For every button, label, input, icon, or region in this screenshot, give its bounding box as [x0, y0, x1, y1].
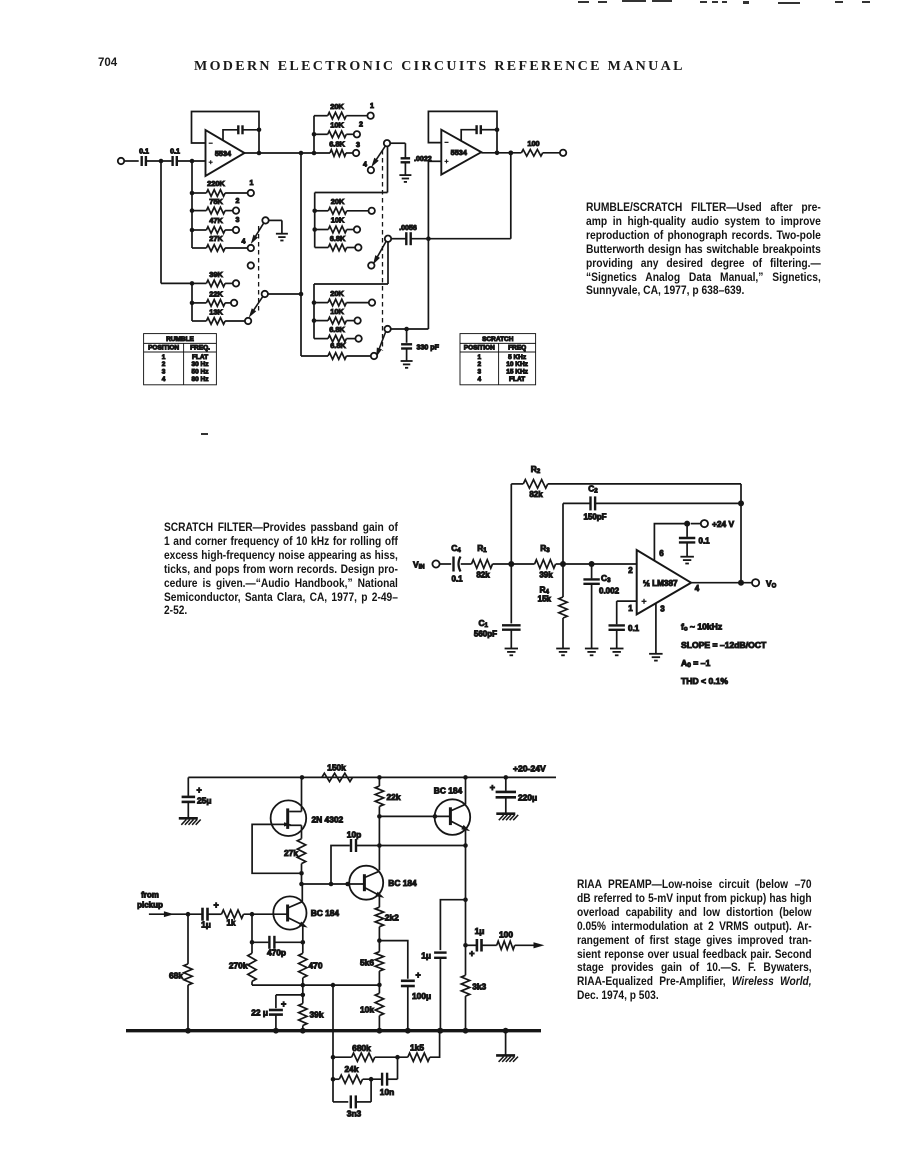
svg-text:10k: 10k	[360, 1005, 374, 1015]
svg-text:6: 6	[659, 549, 664, 558]
resistor 6.8K position3 top	[329, 139, 360, 156]
svg-text:680k: 680k	[352, 1043, 371, 1053]
svg-text:13K: 13K	[209, 307, 223, 316]
svg-text:4: 4	[162, 376, 166, 383]
switch S1a rumble	[248, 217, 268, 245]
resistor 220K position1	[192, 179, 254, 196]
node VIN terminal	[413, 559, 451, 570]
svg-text:6.8K: 6.8K	[330, 234, 346, 243]
text block SCRATCH FILTER caption	[164, 521, 398, 618]
resistor 150k	[322, 762, 353, 781]
svg-text:560pF: 560pF	[474, 630, 497, 639]
svg-text:5 KHz: 5 KHz	[508, 354, 527, 361]
page number	[98, 57, 117, 69]
resistor 13K	[192, 307, 251, 324]
svg-text:SLOPE = –12dB/OCT: SLOPE = –12dB/OCT	[681, 640, 767, 650]
ground for S1a	[276, 234, 288, 241]
running head title	[194, 59, 694, 75]
svg-text:20K: 20K	[331, 197, 345, 206]
svg-text:47K: 47K	[209, 216, 223, 225]
capacitor 22u	[251, 993, 305, 1031]
resistor 270k	[229, 953, 256, 985]
capacitor C1 560pF	[474, 564, 521, 649]
dashed link rumble switch	[258, 226, 260, 312]
svg-text:10K: 10K	[331, 216, 345, 225]
svg-text:1: 1	[370, 102, 374, 110]
transistor Q1 2N4302	[271, 800, 344, 836]
resistor 2k2	[375, 907, 399, 943]
svg-text:C2: C2	[588, 484, 598, 495]
resistor 20K bank D	[314, 289, 375, 306]
svg-text:39k: 39k	[310, 1010, 324, 1020]
capacitor 25u	[182, 777, 212, 818]
node scratch bank rail top	[312, 116, 317, 153]
svg-text:27k: 27k	[284, 848, 298, 858]
wire bank D top rail	[314, 242, 388, 284]
op-amp U1 5534	[206, 130, 245, 176]
svg-text:100μ: 100μ	[412, 991, 431, 1001]
wire 22k to Q3 base	[377, 814, 450, 819]
ground C1	[505, 649, 518, 656]
svg-text:5k6: 5k6	[360, 958, 374, 968]
resistor 100 output RIAA	[497, 930, 545, 950]
resistor R2 82k feedback	[511, 464, 741, 564]
capacitor .0056	[392, 224, 511, 245]
wire Q1 drain	[301, 777, 303, 811]
capacitor 100u	[379, 941, 431, 1031]
svg-text:3n3: 3n3	[347, 1109, 362, 1119]
svg-text:0.1: 0.1	[139, 148, 149, 156]
svg-text:+: +	[469, 949, 474, 959]
wire feedback left rail	[331, 985, 336, 1102]
resistor 470	[299, 942, 323, 985]
resistor 27k	[284, 839, 306, 884]
ground 220u hatched	[496, 814, 518, 821]
svg-text:10n: 10n	[380, 1087, 394, 1097]
svg-text:1μ: 1μ	[201, 920, 211, 930]
svg-text:+: +	[214, 900, 219, 910]
ground 0.1 pin1	[610, 649, 624, 656]
wire op-amp U2 plus rail	[427, 161, 429, 329]
wire input from pickup	[149, 911, 202, 917]
ground pin 3	[649, 654, 663, 661]
svg-text:1k: 1k	[227, 919, 236, 928]
resistor 68k	[169, 914, 192, 1030]
svg-text:FREQ: FREQ	[508, 345, 526, 352]
svg-text:6.8K: 6.8K	[329, 325, 345, 334]
svg-text:0.1: 0.1	[170, 148, 180, 156]
svg-text:4: 4	[477, 376, 481, 383]
svg-text:½ LM387: ½ LM387	[643, 579, 678, 588]
svg-text:15k: 15k	[538, 595, 552, 604]
capacitor 3n3	[333, 1079, 371, 1118]
svg-text:2: 2	[162, 361, 166, 368]
svg-text:0.1: 0.1	[699, 537, 711, 546]
svg-text:22 μ: 22 μ	[251, 1008, 268, 1018]
svg-text:50 Hz: 50 Hz	[192, 369, 210, 376]
pin 1 label	[628, 604, 633, 613]
svg-text:+24 V: +24 V	[712, 519, 735, 529]
capacitor 0.1 pin1	[609, 601, 640, 648]
resistor 20K bank C	[315, 197, 375, 214]
resistor R3 39k	[535, 543, 556, 580]
svg-text:80 Hz: 80 Hz	[192, 376, 210, 383]
svg-text:FREQ.: FREQ.	[190, 345, 210, 352]
node rumble lower rail	[190, 283, 195, 321]
pin 2 label	[628, 566, 633, 575]
svg-text:1k5: 1k5	[410, 1043, 424, 1053]
svg-text:FLAT: FLAT	[192, 354, 208, 361]
svg-text:SCRATCH: SCRATCH	[482, 336, 514, 343]
node bank C rail	[312, 193, 317, 248]
svg-text:C3: C3	[601, 573, 611, 584]
svg-text:3: 3	[660, 605, 665, 614]
capacitor 470p	[250, 914, 305, 957]
resistor 10K bank C	[315, 216, 360, 233]
resistor 5k6	[360, 941, 384, 994]
svg-text:10K: 10K	[330, 307, 344, 316]
ground 25u hatched	[179, 818, 201, 825]
svg-text:POSITION: POSITION	[464, 345, 495, 352]
svg-text:470p: 470p	[267, 948, 286, 958]
wire feedback loop op-amp U2	[428, 111, 497, 152]
capacitor 1u bootstrap	[421, 897, 468, 1030]
table RUMBLE positions	[144, 334, 217, 385]
svg-text:20K: 20K	[330, 102, 344, 111]
svg-text:POSITION: POSITION	[148, 345, 179, 352]
svg-text:220μ: 220μ	[518, 793, 537, 803]
wire input to first 0.1 cap	[118, 158, 139, 164]
svg-text:1: 1	[250, 179, 254, 187]
capacitor 10n	[380, 1057, 398, 1097]
node +24V terminal	[691, 519, 735, 529]
wire Q1 source	[301, 825, 303, 838]
capacitor 220u	[490, 777, 537, 813]
resistor 6.8K bottom	[301, 341, 377, 359]
wire S1a to ground	[269, 220, 282, 233]
wire node B to op-amp	[563, 561, 637, 567]
svg-text:150k: 150k	[327, 762, 346, 772]
svg-text:1μ: 1μ	[475, 926, 485, 936]
capacitor 0.1 input first	[139, 148, 171, 167]
svg-text:FLAT: FLAT	[509, 376, 525, 383]
wire .0056 to op-amp U2 output	[509, 151, 514, 239]
wire op-amp U1 output	[245, 151, 331, 156]
svg-text:330 pF: 330 pF	[417, 344, 440, 352]
svg-text:0.1: 0.1	[628, 624, 640, 633]
svg-text:100: 100	[499, 930, 513, 940]
wire first stage collector node	[299, 882, 364, 887]
svg-text:+: +	[416, 970, 421, 980]
svg-text:BC 184: BC 184	[388, 878, 417, 888]
resistor 24k	[333, 1064, 382, 1083]
ground for .0022	[399, 175, 411, 182]
wire C4 to R1	[461, 563, 472, 565]
svg-text:fc ~ 10kHz: fc ~ 10kHz	[681, 622, 722, 633]
resistor 47K position3	[192, 216, 240, 233]
svg-text:+20-24V: +20-24V	[513, 764, 546, 774]
text block RUMBLE/SCRATCH FILTER caption	[586, 201, 821, 298]
dashed link scratch switch	[382, 150, 384, 351]
svg-text:BC 184: BC 184	[434, 786, 463, 796]
svg-text:3: 3	[236, 216, 240, 224]
svg-text:from: from	[141, 891, 159, 900]
resistor 10K bank D	[314, 307, 361, 324]
svg-text:R1: R1	[477, 543, 487, 554]
svg-text:3: 3	[356, 141, 360, 149]
transistor Q2a BC184 input	[273, 884, 339, 942]
svg-text:4: 4	[363, 161, 367, 169]
table SCRATCH positions	[460, 334, 536, 385]
svg-text:20K: 20K	[330, 289, 344, 298]
svg-text:10p: 10p	[347, 830, 361, 840]
svg-text:3: 3	[162, 369, 166, 376]
resistor 10k	[360, 993, 384, 1030]
svg-text:68k: 68k	[169, 971, 183, 981]
svg-text:pickup: pickup	[137, 901, 163, 910]
svg-text:0.1: 0.1	[451, 575, 463, 584]
svg-text:VIN: VIN	[413, 559, 425, 570]
resistor 6.8K bank C	[315, 234, 362, 251]
resistor 27K position4	[192, 234, 254, 251]
capacitor 0.1 supply bypass	[679, 524, 710, 557]
svg-text:R3: R3	[540, 543, 550, 554]
svg-text:+: +	[281, 999, 286, 1009]
resistor 680k	[333, 1043, 408, 1061]
svg-text:5534: 5534	[215, 149, 232, 158]
svg-text:270k: 270k	[229, 961, 248, 971]
capacitor 0.1 input second	[170, 148, 205, 167]
wire pin 3 ground	[656, 603, 665, 654]
svg-text:1: 1	[628, 604, 633, 613]
wire wiper S2c	[374, 332, 386, 358]
label slope equation	[681, 640, 767, 650]
svg-text:150pF: 150pF	[583, 513, 606, 522]
wire R3 to node B	[556, 561, 566, 567]
svg-text:2: 2	[236, 197, 240, 205]
wire output VO	[691, 578, 776, 593]
wire emitter feedback row	[252, 983, 382, 988]
op-amp U2 5534	[441, 130, 481, 175]
node rumble bank rail	[190, 161, 195, 248]
resistor R1 82k	[472, 543, 493, 580]
wire ground bus RIAA	[126, 1028, 541, 1034]
resistor 1k5	[408, 1028, 443, 1062]
wire op-amp U2 plus input	[428, 160, 441, 162]
op-amp U3 LM387	[637, 550, 691, 614]
svg-text:22K: 22K	[209, 289, 223, 298]
ground C3	[585, 649, 599, 656]
resistor 39K	[192, 270, 239, 287]
svg-text:2: 2	[477, 361, 481, 368]
wire Q1 gate return	[252, 824, 304, 875]
svg-text:82k: 82k	[529, 490, 543, 499]
svg-text:VO: VO	[766, 578, 777, 589]
svg-text:10 KHz: 10 KHz	[506, 361, 528, 368]
resistor 3k3	[461, 975, 486, 1030]
svg-text:15 KHz: 15 KHz	[506, 369, 528, 376]
wire pin1 input	[617, 600, 637, 602]
svg-text:22k: 22k	[387, 792, 401, 802]
svg-text:A0 = –1: A0 = –1	[681, 658, 710, 669]
svg-text:1: 1	[477, 354, 481, 361]
svg-text:3: 3	[477, 369, 481, 376]
switch S2b scratch	[368, 236, 391, 269]
resistor 10K position2 top	[314, 120, 363, 137]
node bank D rail	[312, 284, 317, 339]
switch S2a scratch	[363, 140, 390, 173]
wire R1 to node A	[493, 561, 535, 567]
resistor 75K position2	[192, 197, 240, 214]
svg-text:BC 184: BC 184	[311, 908, 340, 918]
scan artifact marks top edge	[578, 1, 589, 3]
capacitor 1u input	[201, 900, 221, 930]
wire wiper S1b	[247, 297, 263, 319]
wire Q2 collector rail	[378, 816, 380, 870]
resistor 100 output	[481, 139, 566, 156]
ground R4	[556, 649, 570, 656]
capacitor C4 0.1	[451, 543, 463, 584]
capacitor C3 0.002	[583, 564, 619, 649]
wire input to rumble lower bank	[161, 161, 194, 286]
svg-text:82k: 82k	[476, 571, 490, 580]
text block RIAA PREAMP caption	[577, 878, 812, 1003]
svg-text:470: 470	[309, 961, 323, 971]
label from pickup	[137, 891, 163, 910]
svg-text:39k: 39k	[539, 571, 553, 580]
resistor 6.8K bank D	[314, 325, 362, 342]
svg-text:1μ: 1μ	[421, 951, 431, 961]
svg-text:+: +	[197, 785, 202, 795]
capacitor 1u output	[463, 926, 497, 959]
svg-text:.0056: .0056	[399, 224, 417, 232]
svg-text:25μ: 25μ	[197, 796, 211, 806]
wire op-amp U1 output down rail	[300, 153, 302, 356]
wire +20-24V supply rail	[188, 764, 556, 780]
svg-text:2: 2	[628, 566, 633, 575]
svg-text:10K: 10K	[330, 121, 344, 130]
svg-text:R2: R2	[531, 464, 541, 475]
svg-text:100: 100	[527, 139, 539, 148]
capacitor 10p	[331, 830, 468, 884]
svg-text:4: 4	[695, 584, 700, 593]
svg-text:2N 4302: 2N 4302	[312, 814, 344, 824]
svg-text:4: 4	[242, 238, 246, 246]
ground for 330 pF	[401, 361, 413, 368]
ground bus stub hatched	[496, 1031, 518, 1062]
svg-text:2k2: 2k2	[385, 913, 399, 923]
svg-text:30 Hz: 30 Hz	[192, 361, 210, 368]
switch S2c scratch	[384, 326, 428, 332]
svg-text:C1: C1	[478, 618, 488, 629]
ground supply bypass	[680, 557, 694, 564]
svg-text:C4: C4	[451, 543, 461, 554]
svg-text:+: +	[490, 783, 495, 793]
resistor 22K	[192, 289, 237, 306]
svg-text:27K: 27K	[209, 234, 223, 243]
capacitor 330 pF	[401, 329, 440, 361]
wire feedback loop op-amp U1	[192, 112, 260, 154]
label THD equation	[681, 676, 728, 686]
transistor Q3 BC184 output	[434, 777, 471, 975]
resistor R4 15k	[538, 564, 568, 649]
svg-text:1: 1	[162, 354, 166, 361]
capacitor C2 150pF	[563, 484, 741, 565]
svg-text:24k: 24k	[345, 1064, 359, 1074]
svg-text:0.002: 0.002	[599, 587, 620, 596]
capacitor .0022	[391, 143, 432, 175]
svg-text:THD < 0.1%: THD < 0.1%	[681, 676, 728, 686]
svg-text:2: 2	[359, 120, 363, 128]
resistor 22k	[375, 777, 401, 816]
svg-text:75K: 75K	[209, 197, 223, 206]
label A0 equation	[681, 658, 710, 669]
svg-text:6.8K: 6.8K	[330, 341, 346, 350]
resistor 1k	[222, 910, 288, 928]
wire switch S2a to bank C	[315, 147, 388, 193]
svg-text:6.8K: 6.8K	[329, 139, 345, 148]
resistor 20K position1 top	[314, 102, 374, 119]
wire feedback right rail	[738, 484, 744, 586]
svg-text:5534: 5534	[451, 148, 468, 157]
svg-text:3k3: 3k3	[472, 982, 486, 992]
svg-text:220K: 220K	[207, 179, 225, 188]
transistor Q2 BC184 second	[349, 866, 417, 908]
node unused contact rumble	[248, 262, 254, 268]
capacitor feedback op-amp U2	[461, 125, 499, 141]
svg-text:RUMBLE: RUMBLE	[166, 336, 194, 343]
label fc equation	[681, 622, 722, 633]
wire pin 6 supply	[654, 521, 690, 561]
capacitor feedback op-amp U1	[223, 125, 261, 140]
svg-text:39K: 39K	[209, 270, 223, 279]
resistor 39k second	[299, 985, 324, 1031]
switch S1b rumble	[262, 291, 304, 297]
